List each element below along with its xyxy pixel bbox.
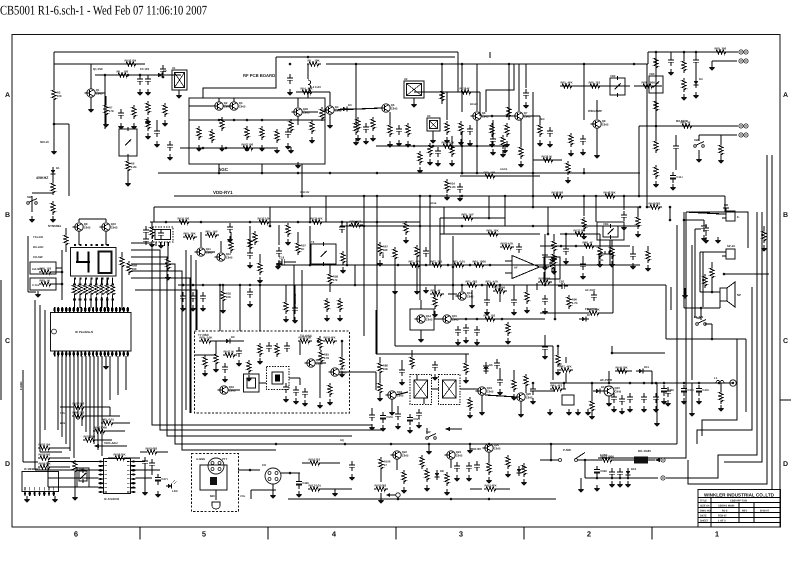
wire junction (469, 264, 472, 267)
wire (700, 251, 722, 253)
ground (317, 402, 324, 409)
wire junction (655, 382, 658, 385)
resistor R164 (538, 276, 552, 284)
wire junction (249, 221, 252, 224)
capacitor C17 (247, 288, 253, 298)
diode D6 (484, 363, 493, 374)
wire (53, 124, 55, 148)
wire junction (476, 172, 479, 175)
transistor Q3 (227, 101, 246, 110)
wire (450, 428, 462, 430)
IC U4 pin left (99, 469, 104, 471)
IC U4 pin right (131, 465, 136, 467)
wire (665, 285, 667, 339)
capacitor C84 (167, 141, 173, 151)
resistor R122 (440, 89, 444, 103)
svg-text:5: 5 (202, 530, 206, 539)
wire (34, 300, 36, 470)
wire (611, 240, 613, 245)
wire (205, 251, 215, 253)
module outline step2 (203, 57, 276, 98)
wire (583, 64, 585, 120)
wire (698, 135, 700, 141)
svg-text:C945: C945 (226, 256, 233, 260)
svg-text:47K: 47K (109, 109, 114, 113)
wire junction (501, 318, 504, 321)
svg-text:SIZE A4: SIZE A4 (700, 505, 710, 508)
wire (599, 234, 601, 246)
wire junction (532, 172, 535, 175)
wire (485, 395, 517, 397)
ground (521, 479, 528, 486)
capacitor C37 (701, 222, 707, 232)
capacitor C26 (339, 223, 345, 233)
resistor R1 (307, 58, 321, 66)
trimmer VR5 (79, 467, 87, 483)
wire (429, 196, 431, 265)
svg-text:100: 100 (491, 170, 496, 174)
wire (771, 155, 773, 490)
wire (363, 332, 365, 336)
ground (257, 277, 264, 284)
svg-text:LED: LED (172, 489, 178, 493)
ground (103, 363, 110, 370)
svg-text:C50+: C50+ (386, 415, 393, 419)
capacitor C20 (484, 296, 490, 306)
wire junction (583, 195, 586, 198)
resistor R103 (38, 452, 52, 460)
svg-text:FUSE: FUSE (600, 453, 608, 457)
svg-text:10K: 10K (315, 58, 320, 62)
wire (144, 467, 146, 489)
electrolytic capacitor C50 (380, 412, 394, 423)
ground (580, 149, 587, 156)
wire (233, 340, 244, 342)
wire (131, 271, 276, 450)
filter/transformer X2 (404, 77, 424, 98)
svg-text:TX5: TX5 (60, 412, 65, 415)
filter/transformer X3 (427, 114, 440, 131)
svg-text:VR3: VR3 (649, 72, 655, 76)
wire (297, 98, 299, 107)
wire (389, 112, 391, 123)
svg-text:2.2K: 2.2K (306, 335, 312, 339)
svg-text:CH: CH (262, 463, 266, 467)
wire (48, 469, 99, 471)
ground (606, 400, 613, 407)
wire (639, 125, 738, 127)
svg-text:Q1 2SC: Q1 2SC (93, 67, 103, 71)
ground (489, 141, 496, 148)
transistor Q23 (444, 450, 463, 459)
wire junction (476, 145, 479, 148)
wire (397, 497, 399, 499)
wire junction (611, 352, 614, 355)
ground (490, 149, 497, 156)
svg-text:47K: 47K (331, 335, 336, 339)
capacitor C34 (542, 251, 548, 261)
ground (416, 422, 423, 429)
ceramic filter CF1 box (410, 375, 432, 405)
resistor R131 (177, 216, 191, 224)
LED D9 (166, 485, 171, 487)
wire junction (544, 264, 547, 267)
wire (550, 382, 734, 384)
svg-text:DC-13.8V: DC-13.8V (638, 449, 651, 453)
wire (40, 451, 62, 453)
wire junction (544, 284, 547, 287)
wire junction (683, 382, 686, 385)
wire junction (469, 443, 472, 446)
wire (655, 52, 657, 126)
capacitor C30 (293, 386, 299, 396)
wire junction (643, 382, 646, 385)
svg-text:10K: 10K (226, 295, 231, 299)
wire junction (461, 145, 464, 148)
ground (29, 216, 36, 223)
wire (476, 64, 478, 111)
wire (724, 273, 769, 275)
wire (397, 406, 399, 410)
wire (95, 297, 97, 308)
wire junction (139, 74, 142, 77)
wire (131, 278, 190, 413)
wire (259, 285, 261, 331)
ground (180, 305, 187, 312)
wire junction (596, 477, 599, 480)
capacitor C16 (200, 292, 206, 302)
resistor R123 (507, 105, 511, 119)
wire (595, 196, 597, 222)
resistor R158 (113, 452, 127, 460)
capacitor C44 (542, 295, 548, 305)
wire junction (452, 284, 455, 287)
svg-text:4.7K: 4.7K (493, 279, 499, 283)
wire (95, 278, 97, 285)
ground (653, 406, 660, 413)
wire (91, 63, 120, 65)
wire (513, 370, 515, 378)
wire (434, 285, 436, 295)
wire (86, 415, 120, 417)
transistor Q22 (390, 450, 409, 459)
ground (287, 89, 294, 96)
capacitor C66 (227, 223, 233, 233)
display DS1 digit 4 bars (76, 261, 90, 263)
svg-text:2.2K: 2.2K (131, 165, 137, 169)
svg-text:4/9KHZ: 4/9KHZ (36, 176, 49, 180)
resistor R147 (223, 349, 237, 357)
wire (121, 269, 123, 310)
wire junction (639, 206, 642, 209)
wire junction (550, 443, 553, 446)
wire (420, 145, 470, 147)
wire (150, 221, 420, 223)
IC U2 pin (159, 242, 161, 246)
svg-text:R71: R71 (466, 279, 472, 283)
wire junction (669, 206, 672, 209)
svg-text:47: 47 (438, 288, 442, 292)
svg-text:C52+: C52+ (413, 417, 420, 421)
resistor R56 (258, 261, 262, 275)
wire (583, 168, 585, 173)
wire (656, 383, 658, 420)
IC U4 pin left (99, 482, 104, 484)
ground (668, 69, 675, 76)
svg-text:C945: C945 (487, 390, 494, 394)
svg-text:R28: R28 (642, 80, 648, 84)
wire (695, 228, 701, 230)
wire (341, 341, 343, 355)
switch SW (426, 430, 437, 439)
wire (540, 245, 630, 247)
wire (745, 339, 747, 412)
wire junction (233, 119, 236, 122)
wire junction (249, 469, 252, 472)
svg-text:OSC/AMP: OSC/AMP (588, 109, 602, 113)
ground (154, 141, 161, 148)
svg-text:D9: D9 (522, 465, 526, 469)
ground (432, 374, 439, 381)
capacitor C62 (154, 127, 160, 137)
svg-text:R51: R51 (206, 229, 212, 233)
wire junction (583, 225, 586, 228)
resistor R101 (83, 434, 97, 442)
ground (125, 180, 132, 187)
wire (219, 285, 221, 331)
IC U5 pin (43, 492, 45, 497)
electrolytic capacitor C58 (594, 466, 608, 477)
wire (420, 330, 422, 336)
wire (104, 75, 106, 129)
wire (57, 356, 59, 430)
wire (185, 250, 187, 410)
wire (465, 354, 467, 361)
wire (582, 256, 584, 260)
ground (547, 141, 554, 148)
wire junction (655, 125, 658, 128)
ground (426, 448, 433, 455)
svg-text:683: 683 (473, 279, 478, 283)
speaker jack SP-JK (726, 249, 735, 259)
wire (596, 100, 598, 119)
ground (455, 339, 462, 346)
wire junction (61, 271, 64, 274)
wire (107, 430, 125, 432)
wire (339, 371, 376, 373)
svg-text:C38+: C38+ (667, 388, 674, 392)
capacitor C78 (619, 395, 625, 405)
wire junction (202, 284, 205, 287)
capacitor C18 (278, 255, 288, 265)
resistor R139 (551, 190, 565, 198)
wire (686, 212, 722, 214)
capacitor C35 (580, 260, 586, 270)
wire junction (200, 221, 203, 224)
svg-text:R88: R88 (583, 240, 589, 244)
ground (131, 123, 138, 130)
ground (467, 140, 474, 147)
resistor R110 (425, 468, 429, 482)
resistor R112 (487, 461, 491, 475)
svg-text:560: 560 (559, 190, 564, 194)
svg-text:FEB-07: FEB-07 (718, 515, 727, 518)
ground (176, 92, 183, 99)
ground (327, 399, 334, 406)
wire junction (309, 264, 312, 267)
resistor array labels (73, 284, 114, 301)
ground (145, 89, 152, 96)
wire junction (532, 225, 535, 228)
switch SW (696, 316, 707, 325)
resistor R8 (197, 126, 201, 140)
electrolytic capacitor C11 (670, 172, 683, 183)
module box speaker section (686, 212, 748, 248)
ground (524, 307, 531, 314)
wire (112, 297, 114, 308)
wire junction (608, 382, 611, 385)
wire (623, 196, 625, 210)
transistor Q9 (590, 119, 609, 128)
wire (278, 225, 280, 245)
ground (285, 143, 292, 150)
capacitor C89 (630, 250, 636, 260)
wire (218, 164, 220, 173)
svg-text:2.2K: 2.2K (450, 185, 456, 189)
wire (99, 445, 127, 447)
wire (307, 93, 309, 98)
ground (302, 400, 309, 407)
ground (449, 160, 456, 167)
ground (566, 409, 573, 416)
ground (761, 245, 768, 252)
wire junction (104, 74, 107, 77)
ground (339, 371, 346, 378)
zone tick bottom (523, 527, 525, 540)
wire (93, 356, 95, 444)
capacitor C7 (580, 135, 586, 145)
svg-text:22K: 22K (494, 228, 499, 232)
wire (185, 443, 677, 445)
resistor R50 (183, 231, 197, 239)
wire (651, 371, 653, 383)
transistor Q6 (470, 111, 489, 120)
wire (525, 388, 527, 393)
ground (597, 261, 604, 268)
wire junction (218, 172, 221, 175)
capacitor C64 (435, 147, 441, 157)
module TX-VCO box (410, 309, 434, 330)
svg-text:F-RXD: F-RXD (19, 381, 23, 390)
IC U2 pin (163, 242, 165, 246)
resistor R119 (146, 101, 150, 115)
wire (53, 52, 55, 88)
svg-text:C945: C945 (426, 318, 433, 322)
resistor R76 (349, 219, 363, 227)
wire (518, 64, 520, 111)
ground (444, 489, 451, 496)
ground (88, 106, 95, 113)
capacitor C72 (266, 342, 272, 352)
wire junction (611, 477, 614, 480)
relay RL1 (599, 254, 613, 265)
wire (302, 462, 308, 464)
trimmer VR2 (610, 74, 625, 97)
wire (32, 192, 53, 194)
svg-text:0.01: 0.01 (316, 483, 322, 487)
wire (48, 461, 99, 463)
wire (394, 270, 396, 346)
wire (489, 52, 491, 58)
resistor R78 (199, 335, 213, 343)
wire junction (376, 221, 379, 224)
trimmer VR3 (649, 72, 663, 95)
wire (269, 207, 271, 226)
wire (481, 395, 483, 409)
wire junction (289, 63, 292, 66)
wire (724, 212, 762, 462)
wire junction (499, 284, 502, 287)
svg-text:C945: C945 (111, 226, 118, 230)
ground (701, 235, 708, 242)
svg-text:R64: R64 (473, 259, 479, 263)
transistor Q20 (514, 392, 533, 401)
wire (52, 172, 54, 181)
wire (84, 278, 86, 285)
transistor Q9 (72, 222, 91, 231)
ground (627, 406, 634, 413)
wire (108, 457, 113, 459)
wire (536, 283, 538, 290)
capacitor C23 (455, 326, 461, 336)
svg-text:R23: R23 (484, 170, 490, 174)
wire (695, 66, 697, 78)
resistor R21 (490, 123, 494, 137)
resistor R121 (163, 103, 167, 117)
wire junction (376, 172, 379, 175)
svg-text:WINKLER INDUSTRIAL CO.,LTD: WINKLER INDUSTRIAL CO.,LTD (704, 493, 775, 498)
svg-text:472: 472 (357, 219, 362, 223)
wire (763, 226, 765, 229)
svg-text:RX-B: RX-B (430, 202, 436, 205)
capacitor C43 (653, 393, 659, 403)
electrolytic capacitor C38 (661, 385, 675, 396)
wire (533, 159, 562, 161)
resistor R67 (378, 242, 389, 256)
ground (467, 412, 474, 419)
IC U4 pin right (131, 482, 136, 484)
svg-text:1UF: 1UF (469, 212, 475, 216)
IC U5 inner pins (25, 487, 54, 491)
ground (474, 339, 481, 346)
connector pin (739, 133, 743, 137)
capacitor C68 (621, 211, 627, 221)
wire (90, 97, 92, 106)
capacitor C41 (627, 393, 633, 403)
resistor R81 (319, 350, 330, 364)
resistor R48 (120, 255, 124, 269)
resistor R65 (393, 247, 397, 261)
wire junction (317, 340, 320, 343)
resistor R36 (654, 139, 658, 153)
svg-text:100K: 100K (649, 80, 656, 84)
wire junction (341, 221, 344, 224)
svg-text:T7 OSC: T7 OSC (198, 333, 210, 337)
svg-text:AF-OUT: AF-OUT (585, 288, 596, 292)
ground (370, 135, 377, 142)
svg-text:R14: R14 (301, 86, 307, 90)
wire (523, 115, 540, 117)
